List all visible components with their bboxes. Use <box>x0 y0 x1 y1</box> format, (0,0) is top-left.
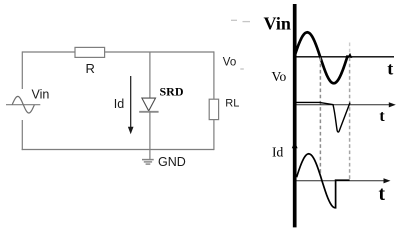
wire left upper stub <box>21 51 23 89</box>
Id t-axis arrowhead <box>384 178 391 183</box>
Vo t-axis <box>297 104 394 106</box>
dashed line left <box>319 58 321 175</box>
resistor R <box>75 47 105 57</box>
svg-text:Vo: Vo <box>223 57 236 69</box>
Vin t-axis <box>297 56 395 58</box>
wire right branch lower <box>213 120 215 151</box>
Vin sine curve <box>294 32 348 83</box>
Vin sine end arrowhead <box>347 53 352 58</box>
waveform y-axis thick line <box>293 4 297 227</box>
Id signal curve <box>297 154 350 208</box>
wire top right segment <box>105 51 214 53</box>
wire right branch upper <box>213 51 215 99</box>
svg-text:Id: Id <box>272 144 283 159</box>
svg-text:GND: GND <box>158 155 186 169</box>
svg-text:Id: Id <box>114 97 124 111</box>
svg-text:Vin: Vin <box>32 88 50 102</box>
svg-text:SRD: SRD <box>160 85 184 99</box>
svg-text:Vo: Vo <box>272 69 287 84</box>
wire diode branch upper <box>149 52 151 98</box>
source Vin horizontal line <box>6 104 40 106</box>
svg-text:t: t <box>387 58 393 78</box>
wire bottom <box>22 149 214 151</box>
wire left lower stub <box>21 120 23 150</box>
Vo t-axis arrowhead <box>389 102 396 107</box>
stray faint dash c <box>240 68 244 70</box>
resistor RL <box>209 99 218 119</box>
source Vin sine symbol <box>12 96 34 113</box>
svg-text:R: R <box>86 61 95 76</box>
svg-text:Vin: Vin <box>264 14 291 34</box>
diode SRD cathode bar <box>139 111 158 113</box>
ground <box>142 159 154 161</box>
Vo signal curve <box>297 102 351 132</box>
svg-text:t: t <box>379 184 386 205</box>
dashed line right <box>349 43 351 54</box>
Id t-axis <box>297 180 388 182</box>
diode SRD triangle <box>142 98 156 111</box>
svg-text:t: t <box>379 108 385 125</box>
dashed line right lower <box>349 58 351 182</box>
wire diode branch lower + ground stub <box>149 111 151 159</box>
stray faint dash b <box>243 21 251 23</box>
Id y-axis arrowhead on thick line <box>292 141 298 148</box>
svg-text:RL: RL <box>225 97 239 109</box>
stray faint dash a <box>231 19 237 21</box>
current arrow Id <box>130 76 132 129</box>
wire top left segment <box>22 51 75 53</box>
